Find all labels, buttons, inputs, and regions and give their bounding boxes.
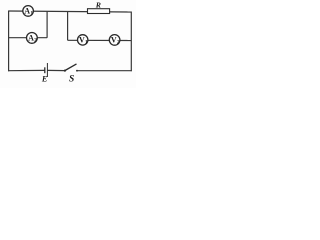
svg-text:2: 2 xyxy=(117,39,120,45)
svg-text:2: 2 xyxy=(34,37,37,43)
wire vertical junction top to voltmeter branch xyxy=(67,12,69,41)
battery E short plate xyxy=(44,67,46,73)
battery E long plate xyxy=(46,63,48,77)
switch S left contact xyxy=(64,70,66,72)
wire vertical junction top to A2 branch xyxy=(46,11,48,37)
svg-text:R: R xyxy=(95,1,101,10)
wire bottom left segment to battery xyxy=(8,69,45,71)
wire right vertical xyxy=(130,12,132,72)
voltmeter V1 xyxy=(78,35,88,46)
resistor R box xyxy=(88,9,110,14)
switch S right contact xyxy=(76,70,78,72)
voltmeter V2 xyxy=(109,35,120,46)
background xyxy=(0,0,136,88)
wire left vertical xyxy=(8,11,10,72)
svg-text:1: 1 xyxy=(85,39,88,45)
ammeter A2 xyxy=(27,33,38,44)
wire A2 branch horizontal xyxy=(9,37,48,39)
wire top from left corner to right corner xyxy=(9,11,132,12)
svg-text:A: A xyxy=(24,7,30,16)
svg-text:E: E xyxy=(41,75,48,84)
svg-text:1: 1 xyxy=(30,10,33,16)
ammeter A1 xyxy=(23,6,34,17)
wire voltmeter branch horizontal xyxy=(68,39,132,41)
svg-text:S: S xyxy=(69,74,74,84)
wire switch to right corner xyxy=(76,70,132,72)
wire battery to switch xyxy=(48,69,65,71)
switch S blade xyxy=(65,64,77,71)
